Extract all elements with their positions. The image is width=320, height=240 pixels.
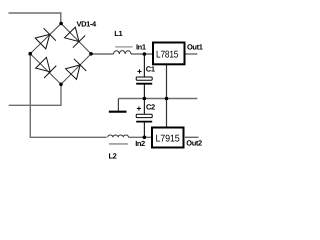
- capacitor C2 top plate (hollow): [136, 114, 152, 117]
- svg-text:L1: L1: [114, 29, 122, 38]
- node regulator common junction: [165, 97, 169, 101]
- wire AC input top: from left edge to top bridge node: [9, 13, 61, 24]
- capacitor C1 plus sign: [137, 69, 141, 73]
- wire C2 leads: [143, 99, 145, 115]
- wire: L1 to L7815 In1: [131, 53, 153, 55]
- node right (bridge DC+): [89, 52, 93, 56]
- capacitor C2 plus sign: [137, 106, 141, 110]
- svg-text:L7815: L7815: [156, 50, 179, 61]
- inductor L2 arcs: [108, 135, 129, 137]
- capacitor C2 bottom plate: [136, 121, 152, 123]
- wire DC minus rail: left node down then right to In2: [30, 54, 106, 138]
- inductor L2 core bar: [109, 143, 128, 145]
- regulator U2 box L7915: [152, 128, 184, 148]
- inductor L1 core bar: [115, 46, 132, 48]
- svg-text:In1: In1: [136, 43, 146, 52]
- wire: L2 to L7915 In2: [129, 136, 153, 138]
- diode VD4 (lower-right, cathode to right node): [66, 59, 87, 80]
- node C1/C2 mid rail junction: [143, 97, 147, 101]
- wire Out1: [185, 53, 197, 55]
- regulator U1 box L7815: [153, 43, 185, 65]
- bridge edge bottom-left: [30, 54, 61, 85]
- diode VD3 (lower-left, cathode to bottom node): [36, 57, 57, 78]
- diode VD2 (upper-right, cathode to right node): [65, 27, 86, 48]
- svg-text:L7915: L7915: [156, 134, 181, 145]
- inductor L1 arcs: [114, 51, 132, 54]
- bridge edge top-left: [30, 24, 61, 54]
- node In2 junction: [143, 136, 147, 140]
- capacitor C1 bottom plate: [136, 83, 152, 85]
- svg-text:VD1-4: VD1-4: [77, 19, 97, 28]
- svg-text:C1: C1: [146, 65, 155, 74]
- node top (bridge AC1): [59, 22, 63, 26]
- ground: [117, 99, 119, 112]
- svg-text:L2: L2: [109, 152, 117, 161]
- wire DC plus rail: right node to L1: [91, 53, 114, 55]
- bridge edge bottom-right: [61, 54, 91, 85]
- node left (bridge DC-): [28, 52, 32, 56]
- wire AC input bottom: from bottom bridge node to left edge: [9, 84, 61, 105]
- capacitor C1 top plate (hollow): [136, 77, 152, 80]
- wire regulator common leg: [166, 65, 168, 128]
- svg-text:In2: In2: [135, 139, 145, 148]
- svg-text:C2: C2: [146, 103, 155, 112]
- node bottom (bridge AC2): [59, 83, 63, 87]
- wire Out2: [185, 136, 199, 138]
- wire ground mid rail: [118, 98, 197, 100]
- svg-text:Out1: Out1: [187, 43, 203, 52]
- diode VD1 (upper-left, cathode to top node): [35, 28, 56, 49]
- wire C1 leads: [143, 54, 145, 78]
- bridge edge top-right: [61, 24, 91, 54]
- node In1 junction: [143, 52, 147, 56]
- svg-text:Out2: Out2: [186, 138, 202, 147]
